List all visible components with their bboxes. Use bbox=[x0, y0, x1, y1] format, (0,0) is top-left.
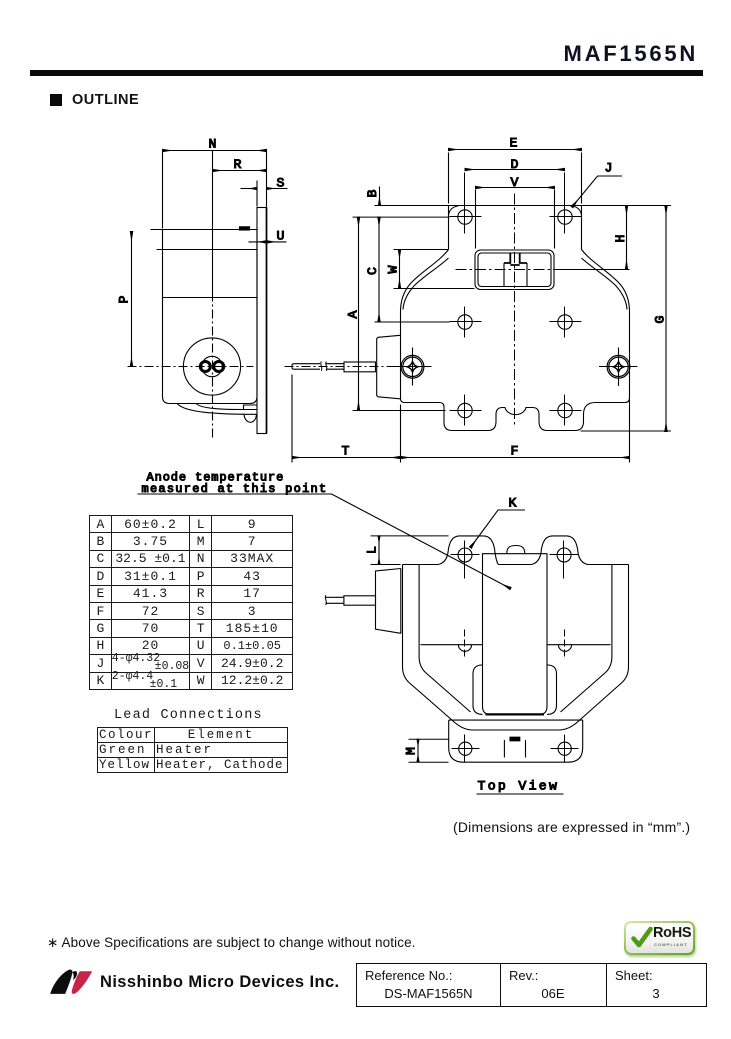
dimension P bbox=[117, 232, 132, 367]
top view body outline bbox=[403, 565, 629, 731]
top view inner wall left bbox=[419, 565, 470, 713]
side view base flange outer curve bbox=[178, 404, 258, 414]
front view hole mid-right bbox=[550, 307, 582, 338]
side view base step bbox=[244, 405, 258, 410]
front view right wing outer curve bbox=[582, 250, 630, 312]
side view filament stem circle inner bbox=[202, 356, 222, 376]
dimension U bbox=[249, 229, 287, 244]
top view caption bbox=[477, 779, 564, 795]
dimension F bbox=[401, 400, 630, 463]
svg-text:Top View: Top View bbox=[478, 779, 560, 794]
svg-text:W: W bbox=[386, 266, 401, 274]
top view central tube bbox=[483, 554, 548, 715]
side view anode stem arc bbox=[244, 414, 257, 422]
front view right wing inner curve bbox=[582, 258, 628, 310]
dimension H bbox=[559, 206, 630, 270]
top view magnet bottom edge bbox=[421, 644, 611, 646]
header title MAF1565N bbox=[564, 41, 698, 67]
svg-text:R: R bbox=[234, 157, 242, 172]
dimension T bbox=[292, 375, 401, 463]
svg-text:G: G bbox=[653, 316, 668, 324]
svg-text:measured at this point: measured at this point bbox=[142, 482, 328, 496]
Nisshinbo company name bbox=[100, 973, 340, 992]
top view mid hole right bbox=[558, 630, 571, 660]
svg-text:E: E bbox=[510, 136, 518, 151]
top view tube top bump bbox=[507, 546, 525, 554]
front view vertical centerline bbox=[514, 194, 516, 426]
side view body outline bbox=[163, 230, 258, 404]
front view top edge line with extensions bbox=[375, 205, 672, 207]
svg-text:T: T bbox=[342, 444, 350, 459]
front view left wing inner curve bbox=[403, 258, 449, 310]
label J with leader bbox=[572, 161, 622, 208]
svg-text:N: N bbox=[209, 137, 217, 152]
front view left body edge bbox=[400, 312, 402, 399]
top view anode tab bbox=[504, 737, 525, 757]
lead connections table bbox=[97, 727, 288, 773]
footer reference table bbox=[356, 963, 707, 1007]
RoHS compliant badge bbox=[624, 921, 695, 955]
top view tube collar left bbox=[473, 665, 483, 714]
anode note leader bbox=[138, 494, 511, 589]
dimension S bbox=[241, 176, 288, 207]
svg-text:V: V bbox=[511, 175, 519, 190]
front view connector box inner bbox=[478, 253, 551, 287]
header rule bar bbox=[30, 70, 703, 76]
Nisshinbo logo mark bbox=[48, 963, 96, 997]
top view ear hole right bbox=[550, 541, 579, 579]
top view ear hole left bbox=[451, 541, 480, 579]
top view tube collar right bbox=[547, 665, 557, 714]
dimension B bbox=[365, 187, 380, 205]
dimension W bbox=[386, 250, 475, 289]
top view body top edge segments bbox=[403, 564, 629, 566]
side view filament seal right bbox=[214, 362, 224, 372]
front view top section right edge bbox=[572, 206, 582, 250]
side view inner line upper bbox=[157, 249, 258, 251]
front view hole top-right bbox=[550, 202, 582, 234]
side view top edge and P extension line bbox=[151, 229, 258, 231]
svg-text:F: F bbox=[511, 444, 519, 459]
top view mid hole left bbox=[458, 630, 471, 660]
side view filament seal left bbox=[200, 362, 210, 372]
footer disclaimer bbox=[47, 935, 416, 951]
dimension C bbox=[365, 217, 450, 322]
top view lead wire bbox=[325, 595, 375, 605]
side view horizontal centerline bbox=[128, 366, 254, 368]
top view left ear bbox=[438, 536, 498, 565]
dimension G bbox=[581, 206, 672, 432]
front view hole bottom-left bbox=[450, 395, 482, 426]
side view base flange inner curve bbox=[197, 404, 258, 410]
svg-text:C: C bbox=[365, 267, 380, 275]
side view filament stem circle outer bbox=[183, 338, 240, 395]
svg-text:M: M bbox=[404, 747, 419, 755]
lead connections title bbox=[114, 708, 263, 723]
front view right body edge bbox=[629, 312, 631, 398]
dimensions unit note bbox=[453, 819, 690, 835]
front view left wing outer curve bbox=[401, 250, 449, 312]
anode note text bbox=[142, 471, 328, 497]
front view connector centerline bbox=[456, 269, 566, 271]
outline section title bbox=[72, 92, 139, 108]
front view connector box outer bbox=[475, 250, 554, 290]
side view top terminal bump bbox=[240, 227, 250, 230]
top view plate hole left bbox=[452, 735, 480, 763]
front view top section left edge bbox=[449, 206, 459, 250]
side view mounting plate bbox=[257, 208, 267, 434]
outline section marker bbox=[50, 94, 62, 106]
front view screw left bbox=[393, 348, 432, 386]
svg-text:H: H bbox=[613, 235, 628, 243]
svg-text:J: J bbox=[605, 161, 613, 176]
front view filter tab bbox=[377, 335, 400, 399]
dimension M bbox=[404, 739, 449, 762]
dimension D bbox=[465, 157, 565, 209]
svg-text:K: K bbox=[509, 496, 517, 511]
dimension N bbox=[163, 137, 267, 229]
svg-text:S: S bbox=[277, 176, 285, 191]
label K with leader bbox=[471, 496, 526, 548]
svg-text:U: U bbox=[277, 229, 285, 244]
dimension L bbox=[365, 536, 449, 565]
front view connector tab bbox=[504, 254, 527, 288]
top view bottom plate bbox=[449, 720, 583, 762]
top view plate hole right bbox=[551, 735, 579, 763]
svg-text:P: P bbox=[117, 296, 132, 304]
front view hole top-left bbox=[450, 202, 482, 234]
top view filter box bbox=[376, 569, 401, 634]
front view lead wire bbox=[285, 362, 405, 372]
front view bottom profile bbox=[401, 398, 630, 431]
side view inner line mid bbox=[163, 297, 258, 299]
dimension V bbox=[476, 175, 555, 249]
side view plate right edge extension to N bbox=[266, 151, 268, 208]
front view screw right bbox=[599, 348, 638, 387]
top view inner wall right bbox=[561, 565, 612, 713]
svg-text:D: D bbox=[511, 157, 519, 172]
front view hole mid-left bbox=[450, 307, 482, 338]
svg-text:A: A bbox=[346, 311, 361, 319]
front view hole bottom-right bbox=[550, 395, 582, 426]
dimension value table bbox=[89, 515, 293, 690]
dimension E bbox=[449, 136, 582, 204]
top view right ear bbox=[532, 536, 588, 565]
svg-text:L: L bbox=[365, 546, 380, 554]
dimension A bbox=[346, 217, 446, 410]
dimension R bbox=[213, 157, 267, 172]
svg-text:B: B bbox=[365, 190, 380, 198]
side view center vertical line bbox=[212, 151, 214, 441]
